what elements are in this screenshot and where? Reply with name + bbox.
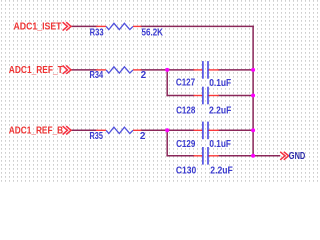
svg-text:C130: C130 [176,165,197,176]
svg-text:2.2uF: 2.2uF [209,105,231,116]
svg-text:ADC1_REF_T: ADC1_REF_T [9,65,63,76]
svg-text:R33: R33 [90,28,104,39]
svg-text:2: 2 [141,70,147,81]
svg-text:ADC1_ISET: ADC1_ISET [14,22,62,33]
svg-text:C129: C129 [176,139,196,150]
svg-text:0.1uF: 0.1uF [209,78,231,89]
svg-text:C128: C128 [176,105,196,116]
svg-text:R35: R35 [90,131,104,142]
svg-text:56.2K: 56.2K [142,28,164,39]
svg-text:R34: R34 [90,70,104,81]
svg-text:C127: C127 [176,78,196,89]
svg-text:2.2uF: 2.2uF [210,165,233,176]
svg-text:0.1uF: 0.1uF [209,139,231,150]
svg-text:GND: GND [289,151,306,162]
svg-text:ADC1_REF_B: ADC1_REF_B [9,125,63,136]
svg-text:2: 2 [140,131,146,142]
